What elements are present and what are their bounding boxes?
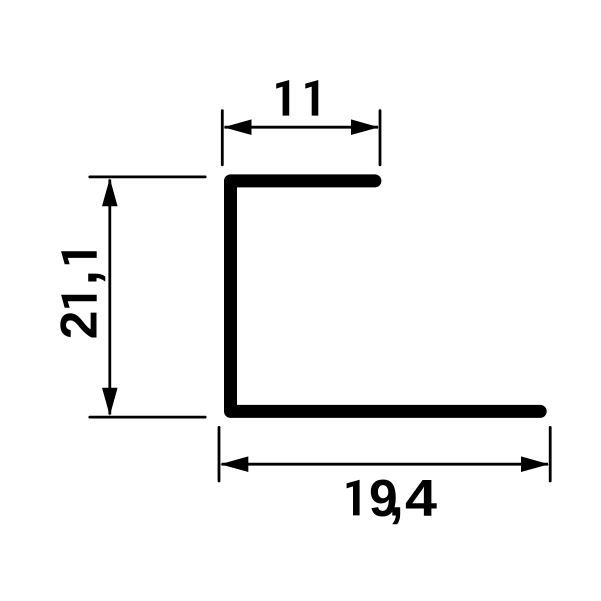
dimension 11: right arrowhead bbox=[351, 119, 379, 135]
dimension 19,4: left arrowhead bbox=[220, 456, 248, 472]
dimension 19,4: value label "19,4" bbox=[347, 465, 438, 528]
profile outline (C-channel cross-section) bbox=[231, 181, 541, 412]
svg-text:,: , bbox=[388, 465, 404, 528]
dimension 21,1: top extension line bbox=[90, 175, 205, 178]
dimension 11: right extension line bbox=[379, 111, 382, 165]
dimension 19,4: right extension line bbox=[549, 427, 552, 481]
svg-text:,: , bbox=[46, 270, 109, 286]
dimension 21,1: bottom extension line bbox=[90, 416, 205, 419]
dimension 21,1: bottom arrowhead bbox=[102, 388, 118, 416]
dimension 19,4: right arrowhead bbox=[521, 456, 549, 472]
dimension 19,4: left extension line bbox=[218, 427, 221, 481]
dimension 19,4: dimension line bbox=[222, 463, 549, 466]
dimension 11: left arrowhead bbox=[224, 119, 252, 135]
dimension 11: left extension line bbox=[221, 111, 224, 165]
dimension 21,1: dimension line bbox=[108, 180, 111, 415]
dimension 21,1: top arrowhead bbox=[102, 178, 118, 206]
dimension 21,1: value label "21,1" (rotated 90 CCW) bbox=[46, 251, 109, 339]
svg-text:4: 4 bbox=[405, 469, 437, 527]
svg-text:2: 2 bbox=[50, 311, 108, 340]
dimension 11: dimension line bbox=[225, 126, 379, 129]
dimension 11: value label "11" bbox=[276, 80, 318, 116]
